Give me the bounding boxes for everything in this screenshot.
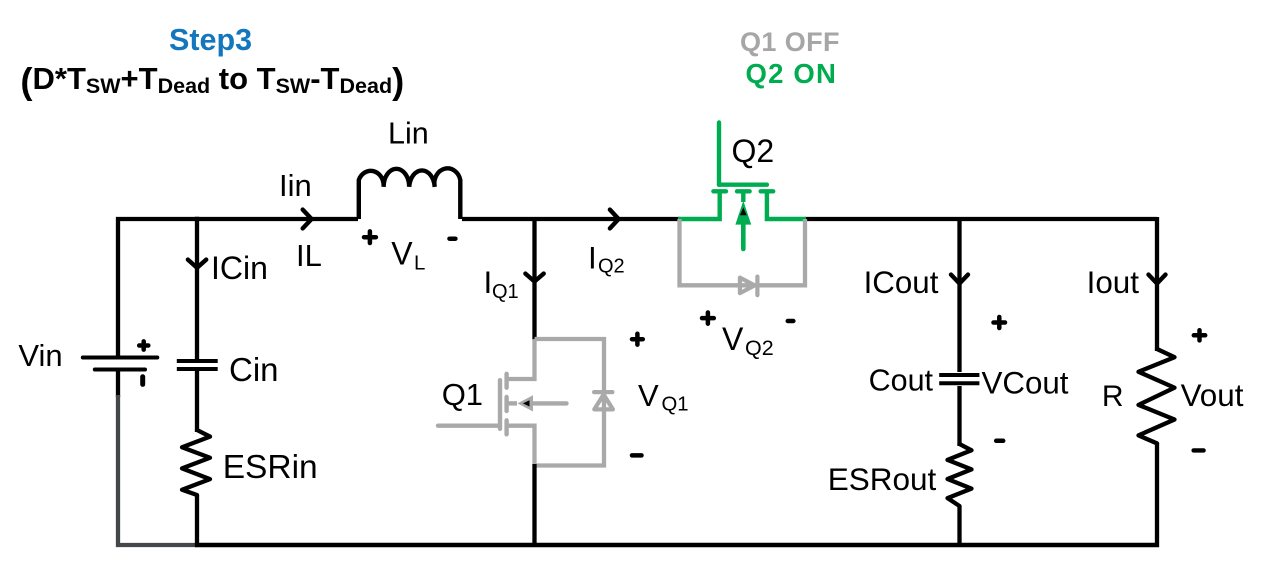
wire battery bottom stub — [116, 370, 120, 398]
svg-text:ESRout: ESRout — [828, 461, 937, 497]
transistor Q1 body arrow tick — [507, 401, 517, 405]
svg-text:ESRin: ESRin — [223, 449, 318, 486]
wire Cout branch top — [957, 217, 961, 372]
wire Q1 source to bottom rail — [532, 464, 536, 547]
diode Q1 body diode bar — [594, 390, 612, 394]
wire rail Q2 to right corner — [805, 217, 1157, 221]
transistor Q1 gate lead — [438, 424, 500, 428]
svg-text:I: I — [588, 240, 597, 276]
label Vout plus — [1194, 330, 1205, 340]
svg-text:Q2: Q2 — [732, 133, 775, 169]
minus sign VL — [450, 236, 456, 241]
resistor ESRout — [948, 444, 972, 506]
label VQ1 plus — [632, 334, 643, 345]
svg-text:ICin: ICin — [211, 250, 268, 286]
transistor Q2 body arrow black tip — [740, 208, 747, 216]
battery Vin top plate — [83, 356, 158, 360]
transistor Q2 body arrow tick — [741, 193, 745, 202]
transistor Q1 source stub — [507, 426, 535, 466]
battery Vin bottom plate — [95, 368, 145, 372]
svg-text:(D*TSW+TDead to TSW-TDead): (D*TSW+TDead to TSW-TDead) — [20, 60, 404, 101]
capacitor Cout top plate — [939, 373, 979, 377]
arrow Iout — [1149, 275, 1166, 284]
wire ESRout to bottom rail — [957, 506, 961, 547]
battery minus sign — [140, 377, 145, 385]
svg-text:Iout: Iout — [1087, 265, 1140, 300]
diode Q2 body diode bar — [755, 277, 759, 296]
svg-text:Lin: Lin — [388, 116, 429, 150]
transistor Q1 body arrow black tip — [523, 400, 530, 406]
transistor Q1 body frame — [535, 339, 605, 466]
capacitor Cout bottom plate — [939, 381, 979, 385]
label VQ2 plus — [702, 313, 714, 324]
svg-text:ICout: ICout — [864, 265, 939, 300]
inductor Lin — [359, 168, 461, 219]
transistor Q1 gate bar — [498, 380, 502, 429]
svg-text:V: V — [722, 321, 744, 357]
svg-text:L: L — [414, 253, 425, 275]
wire Cin to ESRin — [195, 371, 199, 432]
svg-text:Cout: Cout — [869, 364, 934, 398]
diode Q2 body diode triangle — [740, 278, 755, 294]
svg-text:VCout: VCout — [982, 366, 1069, 401]
resistor R — [1139, 349, 1175, 443]
wire ESRin to bottom rail — [195, 495, 199, 547]
transistor Q2 body arrow green head — [735, 201, 751, 225]
label VCout minus — [996, 439, 1003, 444]
svg-text:Q1: Q1 — [442, 377, 483, 412]
svg-text:IL: IL — [296, 238, 322, 273]
wire top-left corner (Vin to rail to inductor) — [118, 219, 358, 358]
transistor Q2 gate lead — [717, 123, 721, 185]
transistor Q2 source stub and rail green right — [767, 191, 806, 219]
capacitor Cin top plate — [177, 359, 218, 363]
wire Cout to ESRout — [957, 386, 961, 446]
svg-text:Q1: Q1 — [492, 281, 519, 303]
wire right branch top — [1155, 217, 1159, 351]
transistor Q1 channel segments — [504, 374, 508, 435]
transistor Q1 drain stub — [507, 339, 535, 379]
transistor Q1 body arrow line — [533, 401, 567, 405]
wire R to bottom rail — [1155, 443, 1159, 547]
diode Q1 body diode triangle — [594, 395, 613, 410]
arrow Iin — [303, 210, 312, 229]
svg-text:Q2: Q2 — [745, 336, 774, 360]
svg-text:V: V — [638, 378, 659, 413]
transistor Q2 drain stub and rail green left — [678, 191, 720, 219]
diode Q2 body diode box — [680, 219, 806, 285]
transistor Q1 body arrow gray head — [518, 395, 534, 411]
arrow ICin — [188, 260, 206, 268]
wire Cin branch top — [195, 217, 199, 359]
transistor Q2 channel segments — [713, 189, 773, 193]
label VQ1 minus — [632, 453, 642, 458]
transistor Q2 gate bar — [719, 182, 767, 186]
wire rail inductor to Q2 — [462, 217, 680, 221]
svg-text:Vin: Vin — [18, 338, 62, 373]
battery plus sign — [139, 341, 148, 349]
svg-text:Q1 OFF: Q1 OFF — [740, 27, 840, 57]
svg-text:Vout: Vout — [1181, 378, 1244, 413]
svg-text:R: R — [1102, 380, 1124, 413]
svg-text:I: I — [484, 264, 493, 300]
capacitor Cin bottom plate — [177, 367, 218, 371]
svg-text:Q2: Q2 — [598, 256, 625, 278]
transistor Q2 body arrow tail — [741, 222, 746, 249]
label Vout minus — [1194, 448, 1204, 452]
svg-text:V: V — [391, 236, 413, 272]
arrow IQ1 — [525, 274, 543, 282]
svg-text:Iin: Iin — [279, 168, 312, 203]
wire bottom-left gray return — [118, 395, 198, 545]
wire bottom rail — [195, 543, 1159, 547]
arrow IQ2 — [610, 210, 619, 229]
plus sign VL — [364, 231, 376, 243]
svg-text:Q2 ON: Q2 ON — [746, 58, 838, 89]
label VQ2 minus — [788, 319, 794, 323]
svg-text:Q1: Q1 — [662, 394, 689, 416]
arrow ICout — [951, 275, 968, 284]
svg-text:Cin: Cin — [229, 351, 279, 388]
wire Q1 drain from rail — [532, 217, 536, 340]
svg-text:Step3: Step3 — [169, 23, 252, 57]
resistor ESRin — [182, 430, 210, 495]
label VCout plus — [994, 317, 1006, 328]
